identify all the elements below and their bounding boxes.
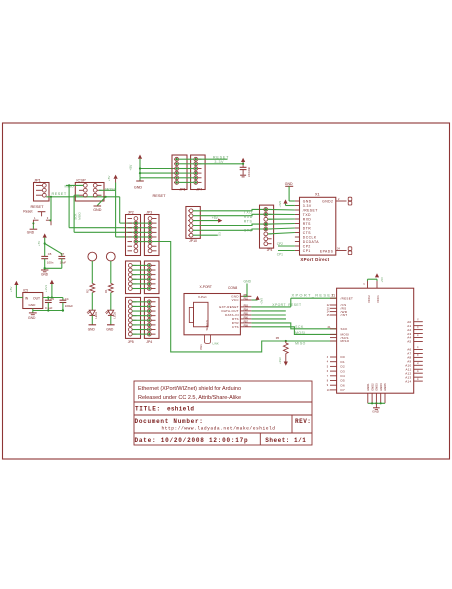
svg-text:GND: GND bbox=[244, 280, 252, 284]
header JP6 bbox=[172, 155, 187, 190]
svg-text:D7: D7 bbox=[341, 388, 345, 392]
svg-text:JP6: JP6 bbox=[179, 188, 185, 192]
svg-text:RTS: RTS bbox=[244, 220, 253, 224]
junctions at JP2 left entries bbox=[135, 222, 137, 224]
wire JP10 pin5 to JP4 bbox=[193, 229, 264, 230]
svg-text:RTS: RTS bbox=[303, 222, 311, 226]
wire 3.3V from JP7 bbox=[198, 163, 243, 165]
svg-text:eshield: eshield bbox=[167, 405, 194, 412]
svg-text:C3: C3 bbox=[50, 297, 54, 301]
svg-text:PB6: PB6 bbox=[244, 317, 249, 319]
ground at ICSP bbox=[94, 205, 102, 207]
U1 bottom pins bbox=[367, 393, 369, 403]
wire TXD JP4-X1 bbox=[268, 213, 295, 215]
svg-text:3.3V: 3.3V bbox=[214, 160, 224, 164]
svg-text:/INT: /INT bbox=[341, 313, 348, 317]
svg-text:+3V3: +3V3 bbox=[278, 357, 282, 364]
svg-text:1: 1 bbox=[34, 216, 36, 220]
X2 jack outline bbox=[194, 302, 209, 327]
svg-text:C7: C7 bbox=[61, 252, 65, 256]
X1 pin2 stub and jumper bbox=[336, 200, 347, 202]
svg-text:XPort Direct: XPort Direct bbox=[300, 257, 329, 262]
junction C5 top bbox=[44, 242, 46, 244]
wire XPORT_RESET to ATmega bbox=[291, 297, 337, 299]
svg-text:GND: GND bbox=[93, 208, 102, 212]
wire MOSI bbox=[99, 189, 116, 191]
svg-text:CON8: CON8 bbox=[228, 286, 237, 290]
X1 pin24 stub and jumper bbox=[336, 250, 347, 252]
wires JP6-JP7 rows bbox=[179, 158, 194, 160]
svg-text:GND3: GND3 bbox=[375, 383, 379, 391]
wire DTR to SCK bbox=[251, 323, 336, 329]
LED LED1 bbox=[89, 310, 95, 315]
svg-text:GND4: GND4 bbox=[379, 383, 383, 391]
svg-text:SCK: SCK bbox=[295, 325, 304, 329]
wire IC5 OUT to caps bbox=[43, 297, 63, 299]
svg-text:+3V3: +3V3 bbox=[44, 285, 48, 292]
wire RTS stub bbox=[251, 318, 286, 320]
svg-text:D3: D3 bbox=[341, 369, 345, 373]
wire VCC to +3V3 bbox=[251, 299, 257, 301]
supply +3V3 arrow at X1 bbox=[283, 199, 287, 203]
svg-text:GND: GND bbox=[27, 231, 35, 235]
svg-text:GND: GND bbox=[28, 316, 36, 320]
svg-text:3: 3 bbox=[327, 356, 329, 359]
header JP9 bbox=[144, 261, 159, 294]
wire +3V3 to X1 pin2 bbox=[285, 204, 287, 206]
wire RESET from JP1 bbox=[46, 196, 120, 198]
svg-text:TXD: TXD bbox=[303, 213, 311, 217]
svg-text:GND: GND bbox=[29, 303, 37, 307]
svg-text:VCC1: VCC1 bbox=[376, 295, 380, 303]
ground below LED2 bbox=[107, 324, 115, 326]
title block bbox=[134, 381, 312, 445]
svg-text:D0: D0 bbox=[341, 355, 345, 359]
svg-text:XPORT_RESET: XPORT_RESET bbox=[292, 293, 336, 298]
svg-text:Sheet: 1/1: Sheet: 1/1 bbox=[265, 437, 306, 444]
ground below switch bbox=[30, 228, 38, 230]
junction RESET/switch bbox=[50, 196, 52, 198]
junction 3.3V/C8 bbox=[242, 163, 244, 165]
resistor R5 bbox=[285, 341, 287, 343]
wire to JP6 pin4 bbox=[140, 172, 175, 174]
svg-text:R1: R1 bbox=[104, 289, 108, 293]
wire GND to X1 pin1 bbox=[288, 186, 290, 201]
switch S1 bbox=[38, 211, 46, 213]
svg-text:+5V: +5V bbox=[9, 287, 13, 292]
svg-text:JP5: JP5 bbox=[128, 340, 134, 344]
svg-text:JP4: JP4 bbox=[146, 340, 152, 344]
svg-text:+5V: +5V bbox=[37, 241, 41, 246]
junction MISO/R5 bbox=[285, 340, 287, 342]
svg-text:D2: D2 bbox=[341, 365, 345, 369]
wire DATA-OUT stub bbox=[251, 310, 285, 312]
svg-text:GND: GND bbox=[303, 199, 312, 203]
wire R2 to LED1 bbox=[91, 293, 93, 311]
ground below LED1 bbox=[89, 324, 97, 326]
svg-text:PH1: PH1 bbox=[199, 344, 203, 350]
ground below IC5 bbox=[29, 312, 37, 314]
wire RXD JP4-X1 bbox=[268, 218, 295, 220]
svg-text:JP4: JP4 bbox=[267, 248, 273, 252]
svg-text:R5: R5 bbox=[276, 336, 280, 340]
svg-text:+5V: +5V bbox=[129, 164, 133, 171]
svg-text:IC5: IC5 bbox=[23, 288, 28, 292]
wire ICSP ground diagonal bbox=[97, 197, 105, 206]
wire JP10 pin2 to JP4 bbox=[193, 214, 264, 215]
svg-text:9: 9 bbox=[327, 384, 329, 387]
wire C5/C7 ground bus bbox=[45, 267, 62, 269]
supply +3V3 arrow at C8 bbox=[241, 158, 245, 162]
svg-text:D5: D5 bbox=[341, 379, 345, 383]
svg-text:37: 37 bbox=[417, 345, 419, 348]
svg-text:CTS: CTS bbox=[244, 228, 253, 232]
wire CTS JP4-X1 bbox=[268, 233, 295, 234]
header JP7 bbox=[191, 155, 206, 190]
svg-text:GND5: GND5 bbox=[383, 383, 387, 391]
supply +5V arrow right bbox=[218, 219, 222, 223]
svg-text:Date: 10/20/2008 12:00:17p: Date: 10/20/2008 12:00:17p bbox=[135, 437, 249, 444]
svg-text:+5V: +5V bbox=[380, 277, 384, 282]
wire SCK vertical bbox=[68, 185, 70, 227]
svg-text:PB5: PB5 bbox=[244, 314, 249, 316]
svg-text:RESET: RESET bbox=[213, 155, 229, 159]
svg-text:TITLE:: TITLE: bbox=[135, 405, 161, 412]
svg-text:PB4: PB4 bbox=[244, 309, 249, 311]
svg-text:SCK: SCK bbox=[341, 327, 348, 331]
junction RESET/ICSP bbox=[105, 196, 107, 198]
ground at C8 bbox=[240, 174, 246, 176]
wires JP2-JP3 rows bbox=[138, 222, 148, 224]
svg-text:8: 8 bbox=[327, 380, 329, 383]
junction MISO/SCK bbox=[68, 184, 70, 186]
svg-text:TXD: TXD bbox=[244, 210, 253, 214]
wire vertical to JP2 row5 bbox=[115, 190, 117, 237]
ground below C5 bbox=[41, 269, 48, 271]
U1 left pins bbox=[330, 297, 337, 299]
pad circle LED2 bbox=[106, 252, 115, 261]
wire LED1 to ground bbox=[91, 315, 93, 324]
svg-text:10uF: 10uF bbox=[60, 261, 67, 265]
svg-text:MISO: MISO bbox=[341, 339, 350, 343]
capacitor C8 bbox=[240, 166, 247, 168]
svg-text:PB3: PB3 bbox=[244, 305, 249, 307]
svg-text:100n: 100n bbox=[47, 261, 54, 265]
svg-text:XPORT_RESET: XPORT_RESET bbox=[272, 303, 301, 307]
svg-text:JP7: JP7 bbox=[196, 188, 202, 192]
svg-text:Ethernet (XPort/WIZnet) shield: Ethernet (XPort/WIZnet) shield for Ardui… bbox=[138, 386, 241, 392]
wire D12 from JP3 to ATmega MISO bbox=[152, 242, 337, 352]
svg-text:D1: D1 bbox=[341, 360, 345, 364]
wire LED2 to ground bbox=[110, 315, 112, 324]
svg-text:X1: X1 bbox=[315, 191, 321, 196]
svg-text:25: 25 bbox=[327, 314, 330, 317]
wire to JP6 pin5 bbox=[140, 177, 175, 179]
svg-text:REV:: REV: bbox=[295, 418, 311, 425]
header JP4 bottom bbox=[144, 297, 159, 338]
header JP4 bbox=[260, 205, 274, 248]
supply +5V arrow at C5 bbox=[43, 233, 47, 237]
wires JP5-JP4 rows bbox=[132, 301, 147, 303]
svg-text:X-PORT: X-PORT bbox=[200, 285, 212, 289]
svg-text:/RESET: /RESET bbox=[341, 296, 354, 300]
U1 right pins bbox=[414, 321, 423, 323]
wire +5V to JP6 pin3 bbox=[140, 168, 175, 170]
svg-text:GND1: GND1 bbox=[366, 383, 370, 391]
wire ground bus U1 bbox=[368, 402, 385, 404]
svg-text:CTS: CTS bbox=[232, 325, 239, 329]
svg-text:C5: C5 bbox=[48, 252, 52, 256]
svg-text:DCDATA: DCDATA bbox=[303, 240, 319, 244]
svg-text:GND: GND bbox=[134, 186, 143, 190]
wire GND to X2 pin1 bbox=[243, 284, 247, 297]
header JP8 bbox=[126, 261, 141, 294]
wire JP10 pin4 to JP4 bbox=[193, 224, 264, 225]
wire switch pin1 to ground bbox=[32, 225, 34, 229]
supply +3V3 arrow down at R5 bbox=[284, 362, 288, 366]
wire DATA-IN stub bbox=[251, 314, 285, 316]
svg-text:3.3V: 3.3V bbox=[303, 204, 312, 208]
wire RTS JP4-X1 bbox=[268, 223, 295, 226]
svg-text:RESET: RESET bbox=[52, 192, 67, 196]
svg-text:VCC2: VCC2 bbox=[367, 295, 371, 303]
svg-text:4: 4 bbox=[327, 361, 329, 364]
svg-text:PB8: PB8 bbox=[244, 325, 249, 327]
wire diagonal to C7 bbox=[45, 244, 62, 257]
wire IC5 ground bus bbox=[32, 309, 34, 313]
svg-text:GND2: GND2 bbox=[322, 200, 333, 204]
svg-text:D3: D3 bbox=[218, 232, 222, 236]
wire R1 to LED2 bbox=[110, 293, 112, 311]
wire LED2 top bbox=[110, 261, 112, 283]
svg-text:GND: GND bbox=[285, 182, 293, 186]
svg-text:CP2: CP2 bbox=[303, 244, 311, 248]
svg-text:A5: A5 bbox=[407, 340, 411, 344]
svg-text:CP1: CP1 bbox=[277, 253, 283, 257]
svg-text:IN: IN bbox=[25, 296, 29, 300]
svg-text:DCCLK: DCCLK bbox=[303, 235, 317, 239]
wire +5V to IC5 IN bbox=[16, 297, 22, 299]
wire JP10 pin6 stub bbox=[193, 234, 218, 236]
wire horizontal to JP2 bbox=[116, 236, 134, 238]
wire MISO stub bbox=[66, 184, 83, 186]
wire /RESET JP4-X1 bbox=[268, 208, 295, 211]
svg-text:LED2: LED2 bbox=[113, 311, 117, 318]
wire CP2 stub bbox=[278, 245, 295, 247]
svg-text:2: 2 bbox=[363, 283, 366, 285]
wire JP10 pin3 +5V bbox=[193, 220, 218, 222]
svg-text:LED1: LED1 bbox=[94, 311, 98, 318]
svg-text:OUT: OUT bbox=[33, 296, 40, 300]
svg-text:CP1: CP1 bbox=[303, 249, 311, 253]
svg-text:D6: D6 bbox=[341, 383, 345, 387]
svg-text:http://www.ladyada.net/make/es: http://www.ladyada.net/make/eshield bbox=[162, 426, 276, 432]
schematic frame bbox=[3, 123, 450, 459]
svg-text:RXD: RXD bbox=[244, 215, 253, 219]
X2 LED pins bbox=[205, 335, 211, 344]
wire SCK horizontal to JP2 bbox=[69, 227, 134, 229]
svg-text:C4: C4 bbox=[65, 297, 69, 301]
svg-text:C8 100n: C8 100n bbox=[247, 166, 251, 177]
svg-text:VCC: VCC bbox=[232, 298, 240, 302]
wire RESET vertical to JP2 bbox=[119, 197, 121, 223]
svg-text:A14: A14 bbox=[405, 379, 411, 383]
wire XPORT_RESET from X2 bbox=[251, 306, 290, 308]
svg-text:GND2: GND2 bbox=[370, 383, 374, 391]
capacitor C4 bbox=[62, 298, 64, 301]
svg-text:+5V: +5V bbox=[107, 176, 111, 181]
svg-text:10: 10 bbox=[327, 389, 330, 392]
svg-text:+5V: +5V bbox=[212, 216, 219, 220]
resistor R2 bbox=[90, 283, 95, 292]
wire CP1 stub bbox=[278, 250, 295, 252]
svg-text:+3V3: +3V3 bbox=[278, 200, 282, 207]
svg-text:GND: GND bbox=[41, 272, 49, 276]
header JP10 bbox=[186, 207, 200, 239]
svg-text:Document Number:: Document Number: bbox=[135, 418, 204, 425]
supply +5V arrow at IC5 bbox=[14, 281, 18, 285]
wire XPORT_RESET vertical bbox=[290, 298, 292, 307]
svg-text:CP2: CP2 bbox=[277, 242, 283, 246]
capacitor C3 bbox=[47, 298, 49, 301]
svg-text:RESET: RESET bbox=[31, 204, 45, 209]
wire MISO2 horizontal to JP2 bbox=[74, 231, 134, 233]
wire DTR JP4-X1 bbox=[268, 228, 295, 229]
svg-text:RESET: RESET bbox=[153, 193, 167, 198]
svg-text:6: 6 bbox=[327, 370, 329, 373]
pad circle LED1 bbox=[88, 252, 97, 261]
svg-text:7: 7 bbox=[327, 375, 329, 378]
svg-text:100uF: 100uF bbox=[65, 304, 73, 308]
svg-text:CTS: CTS bbox=[303, 231, 311, 235]
resistor R1 bbox=[108, 283, 113, 292]
svg-text:JP1: JP1 bbox=[34, 178, 42, 183]
ground below U1 bbox=[373, 407, 380, 409]
wire MISO2 vertical bbox=[73, 195, 75, 232]
svg-text:MOSI: MOSI bbox=[295, 331, 306, 335]
wires JP8-JP9 rows bbox=[132, 264, 147, 266]
svg-text:SHIELD: SHIELD bbox=[205, 320, 209, 330]
svg-text:D4: D4 bbox=[341, 374, 345, 378]
supply +5V arrow at U1 bbox=[375, 273, 379, 277]
svg-text:MISO: MISO bbox=[295, 342, 306, 346]
wire LED1 top bbox=[91, 261, 93, 283]
wire switch pin3 to RESET bbox=[50, 197, 52, 220]
svg-text:MISO: MISO bbox=[77, 211, 81, 219]
svg-text:PB2: PB2 bbox=[244, 299, 249, 301]
svg-text:DTR: DTR bbox=[303, 226, 311, 230]
wire CTS to MOSI bbox=[251, 327, 336, 335]
supply +5V arrow above MOSI node bbox=[114, 175, 118, 179]
wire RESET from JP7 bbox=[198, 158, 228, 160]
svg-text:/RESET: /RESET bbox=[303, 208, 318, 212]
svg-text:GND: GND bbox=[372, 410, 380, 414]
svg-text:PB7: PB7 bbox=[244, 321, 249, 323]
svg-text:EPADS: EPADS bbox=[320, 250, 334, 254]
svg-text:Released under CC 2.5, Attrib/: Released under CC 2.5, Attrib/Share-Alik… bbox=[138, 395, 241, 401]
svg-text:Reset: Reset bbox=[23, 210, 32, 214]
svg-text:X-Port: X-Port bbox=[198, 295, 207, 299]
svg-text:+3V3: +3V3 bbox=[259, 298, 263, 305]
wire JP10 pin1 to JP4 bbox=[193, 209, 264, 210]
supply +5V arrow at JP6 bbox=[138, 155, 142, 159]
ground at JP6 bbox=[136, 180, 144, 182]
supply +3V3 arrow at X2 bbox=[255, 296, 259, 300]
svg-text:3: 3 bbox=[47, 216, 49, 220]
svg-text:GND: GND bbox=[106, 327, 114, 331]
header JP5 bbox=[126, 297, 141, 338]
svg-text:R2: R2 bbox=[86, 289, 90, 293]
LED LED2 bbox=[108, 310, 114, 315]
svg-text:GND: GND bbox=[88, 327, 96, 331]
svg-text:LINK: LINK bbox=[213, 342, 219, 346]
IC U1 Arduino shield bbox=[337, 288, 414, 393]
svg-text:ICSP: ICSP bbox=[76, 178, 86, 183]
supply +3V3 arrow at IC5 bbox=[50, 280, 54, 284]
junctions on JP4 pins bbox=[265, 208, 268, 211]
svg-text:5: 5 bbox=[327, 365, 329, 368]
svg-text:31: 31 bbox=[417, 317, 419, 320]
U1 top pins VCC bbox=[367, 281, 369, 288]
svg-text:21: 21 bbox=[332, 294, 336, 298]
svg-text:JP10: JP10 bbox=[189, 239, 197, 243]
svg-text:RXD: RXD bbox=[303, 217, 312, 221]
wire GND stem at JP6 bbox=[139, 178, 141, 181]
